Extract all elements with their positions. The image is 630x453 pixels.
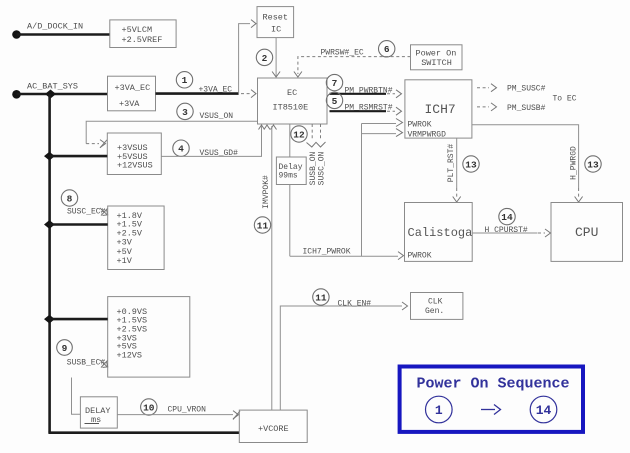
junction diamond SUS rail	[44, 152, 55, 161]
sequence circle 11 (CLK)	[313, 289, 329, 305]
dashed arrow VSUS_ON into +3VSUS box	[86, 143, 99, 145]
Reset IC box	[257, 7, 294, 38]
arrow into CPU top	[575, 197, 583, 203]
sequence circle 14	[499, 208, 515, 224]
junction diamond SUSC rail	[44, 220, 55, 229]
regulator box +3VA_EC / +3VA	[108, 76, 156, 111]
svg-text:To EC: To EC	[553, 95, 577, 104]
svg-text:ICH7: ICH7	[425, 102, 456, 117]
svg-text:10: 10	[143, 402, 155, 413]
legend arrow	[481, 405, 501, 415]
svg-text:+1V: +1V	[117, 256, 133, 266]
arrow into EC top from PWRSW#	[294, 72, 302, 78]
wire VSUS_ON from EC left	[86, 121, 257, 143]
svg-text:PM_SUSB#: PM_SUSB#	[507, 104, 546, 113]
dashed wire PWRSW# EC	[298, 57, 411, 74]
svg-text:A/D_DOCK_IN: A/D_DOCK_IN	[27, 22, 83, 32]
wire PLT_RST# from ICH7 to Calistoga	[456, 138, 458, 188]
wire CPU_VRON DELAY to +VCORE	[117, 414, 233, 416]
svg-text:11: 11	[315, 292, 327, 303]
svg-text:AC_BAT_SYS: AC_BAT_SYS	[27, 82, 78, 92]
svg-text:8: 8	[67, 193, 73, 204]
junction diamond SUSB rail	[44, 315, 55, 324]
svg-text:CPU_VRON: CPU_VRON	[168, 406, 207, 415]
svg-text:+12VSUS: +12VSUS	[117, 161, 153, 171]
arrow into CLK Gen	[402, 302, 408, 310]
wire AC_BAT_SYS vertical bus	[48, 94, 51, 433]
sequence circle 6	[379, 41, 395, 57]
svg-text:6: 6	[384, 44, 390, 55]
wire H_PWRGD from ICH7 to CPU	[472, 125, 579, 188]
arrow into Calistoga PWROK	[398, 252, 404, 260]
svg-text:SUSC_EC#: SUSC_EC#	[67, 208, 106, 217]
EC box IT8510E	[258, 78, 328, 124]
svg-text:Reset: Reset	[263, 12, 289, 22]
svg-text:VSUS_ON: VSUS_ON	[200, 112, 234, 121]
svg-text:Calistoga: Calistoga	[408, 226, 473, 240]
sequence circle 8	[61, 190, 77, 206]
wire CLK_EN# from +VCORE to CLK Gen	[280, 306, 402, 410]
svg-text:13: 13	[465, 159, 477, 170]
dashed arrow +3VA_EC into EC	[241, 93, 250, 95]
sequence circle 5	[326, 92, 342, 108]
CPU box	[551, 203, 623, 262]
dashed wire SUSB_ON out of EC	[311, 124, 313, 140]
svg-text:SWITCH: SWITCH	[421, 58, 452, 68]
svg-text:ICH7_PWROK: ICH7_PWROK	[303, 248, 351, 257]
svg-text:PM_SUSC#: PM_SUSC#	[507, 85, 546, 94]
sequence circle 1	[176, 72, 192, 88]
svg-text:11: 11	[257, 220, 269, 231]
node AC_BAT_SYS bullet	[12, 90, 21, 99]
svg-text:IC: IC	[271, 24, 281, 34]
wire AC bus to +3VSUS box	[49, 155, 107, 158]
wire AC bus to +0.9VS box	[49, 318, 107, 321]
sequence circle 11	[254, 217, 270, 233]
legend circle 1	[426, 396, 453, 423]
regulator box +1.8V .. +1V	[108, 206, 164, 270]
DELAY ms box	[80, 397, 117, 428]
svg-text:3: 3	[182, 107, 188, 118]
wire H_CPURST# Calistoga to CPU	[472, 232, 537, 234]
+VCORE box	[239, 410, 307, 442]
svg-text:+3VA: +3VA	[119, 99, 140, 109]
svg-text:7: 7	[332, 78, 338, 89]
regulator box +3VSUS/+5VSUS/+12VSUS	[107, 133, 161, 175]
svg-text:Power On: Power On	[416, 49, 457, 59]
wire Delay output down	[289, 185, 291, 257]
regulator box +5VLCM / +2.5VREF	[110, 20, 176, 48]
wire +3VA_EC	[156, 92, 239, 95]
wire stub into ICH7 VRMPWRGD	[362, 133, 397, 135]
svg-text:4: 4	[178, 144, 184, 155]
ICH7 box	[405, 80, 472, 140]
sequence circle 10	[141, 399, 157, 415]
svg-text:9: 9	[62, 343, 68, 354]
svg-text:SUSB_EC#: SUSB_EC#	[67, 359, 106, 368]
svg-text:5: 5	[332, 96, 338, 107]
arrow into Reset IC	[251, 20, 256, 28]
arrow SUSB_EC# into +0.9VS box	[100, 360, 108, 368]
Delay 99ms box	[276, 157, 306, 185]
wire stub into ICH7 PWROK	[362, 123, 397, 125]
sequence circle 7	[326, 74, 342, 90]
svg-text:14: 14	[501, 212, 513, 223]
wire SUSB_EC# branch down to DELAY	[72, 378, 81, 415]
dashed wire SUSC_ON out of EC	[307, 124, 326, 147]
wire AC_BAT_SYS to +3VA box	[17, 93, 108, 96]
wire +3VA_EC up to Reset IC	[239, 24, 250, 94]
sequence circle 12	[291, 126, 307, 142]
svg-text:EC: EC	[287, 88, 297, 98]
Power On Sequence legend box	[400, 367, 583, 432]
arrow into +VCORE	[233, 411, 239, 419]
svg-text:+3VA_EC: +3VA_EC	[115, 83, 151, 93]
svg-text:+12VS: +12VS	[117, 351, 143, 361]
arrow into EC top from Reset IC	[272, 72, 280, 78]
wire Reset IC to EC	[275, 38, 277, 76]
svg-text:+2.5VREF: +2.5VREF	[122, 35, 163, 45]
wire bottom bus to +VCORE	[48, 431, 239, 434]
svg-text:CPU: CPU	[575, 225, 598, 240]
svg-text:1: 1	[435, 403, 443, 418]
svg-text:+VCORE: +VCORE	[258, 424, 289, 434]
sequence circle 13 (right)	[585, 156, 601, 172]
svg-text:1: 1	[182, 75, 188, 86]
CLK Gen box	[411, 293, 463, 320]
dashed arrow PM_SUSC# out of ICH7	[477, 84, 497, 92]
wire A/D_DOCK_IN to +5VLCM box	[17, 33, 111, 36]
sequence circle 2	[256, 49, 272, 65]
sequence circle 4	[173, 140, 189, 156]
wire IMVPOK# from +VCORE to EC	[271, 126, 273, 410]
svg-text:VRMPWRGD: VRMPWRGD	[408, 131, 447, 140]
wire PM_RSMRST#	[330, 110, 387, 112]
svg-text:PWROK: PWROK	[408, 252, 432, 261]
Calistoga box	[405, 203, 473, 262]
legend circle 14	[530, 396, 557, 423]
svg-text:Power On Sequence: Power On Sequence	[417, 376, 570, 393]
junction diamond AC_BAT_SYS	[45, 90, 56, 99]
svg-text:Gen.: Gen.	[425, 307, 444, 316]
svg-text:CLK_EN#: CLK_EN#	[338, 300, 372, 309]
sequence circle 13 (left)	[463, 156, 479, 172]
Power On SWITCH box	[411, 45, 463, 70]
svg-text:PWROK: PWROK	[408, 121, 432, 130]
svg-text:2: 2	[262, 53, 268, 64]
wire EC to Delay 99ms	[289, 124, 291, 157]
svg-text:IT8510E: IT8510E	[273, 102, 309, 112]
node A/D_DOCK_IN bullet	[12, 30, 21, 39]
wire junction up to ICH7 inputs	[361, 124, 363, 257]
svg-text:H_PWRGD: H_PWRGD	[570, 146, 579, 180]
sequence circle 3	[177, 103, 193, 119]
svg-text:IMVPOK#: IMVPOK#	[262, 175, 271, 209]
wire PM_PWRBTN#	[330, 93, 387, 95]
svg-text:99ms: 99ms	[279, 172, 298, 181]
wire VSUS_GD# to EC bottom	[161, 126, 261, 156]
svg-text:14: 14	[536, 403, 552, 418]
svg-text:PLT_RST#: PLT_RST#	[447, 144, 456, 183]
svg-text:13: 13	[587, 159, 599, 170]
svg-text:SUSC_ON: SUSC_ON	[318, 152, 327, 186]
arrow SUSC_EC# into +1.8V box	[100, 208, 108, 216]
wire ICH7_PWROK to Calistoga	[290, 255, 398, 257]
dashed arrow PM_SUSB# out of ICH7	[477, 103, 497, 111]
regulator box +0.9VS .. +12VS	[108, 297, 190, 378]
svg-text:+5VLCM: +5VLCM	[122, 25, 153, 35]
svg-text:CLK: CLK	[428, 297, 443, 306]
arrow into Calistoga top	[453, 197, 461, 203]
arrows into EC bottom	[259, 125, 265, 130]
wire AC bus to +1.8V box	[49, 223, 107, 226]
svg-text:12: 12	[293, 129, 305, 140]
sequence circle 9	[57, 340, 73, 356]
